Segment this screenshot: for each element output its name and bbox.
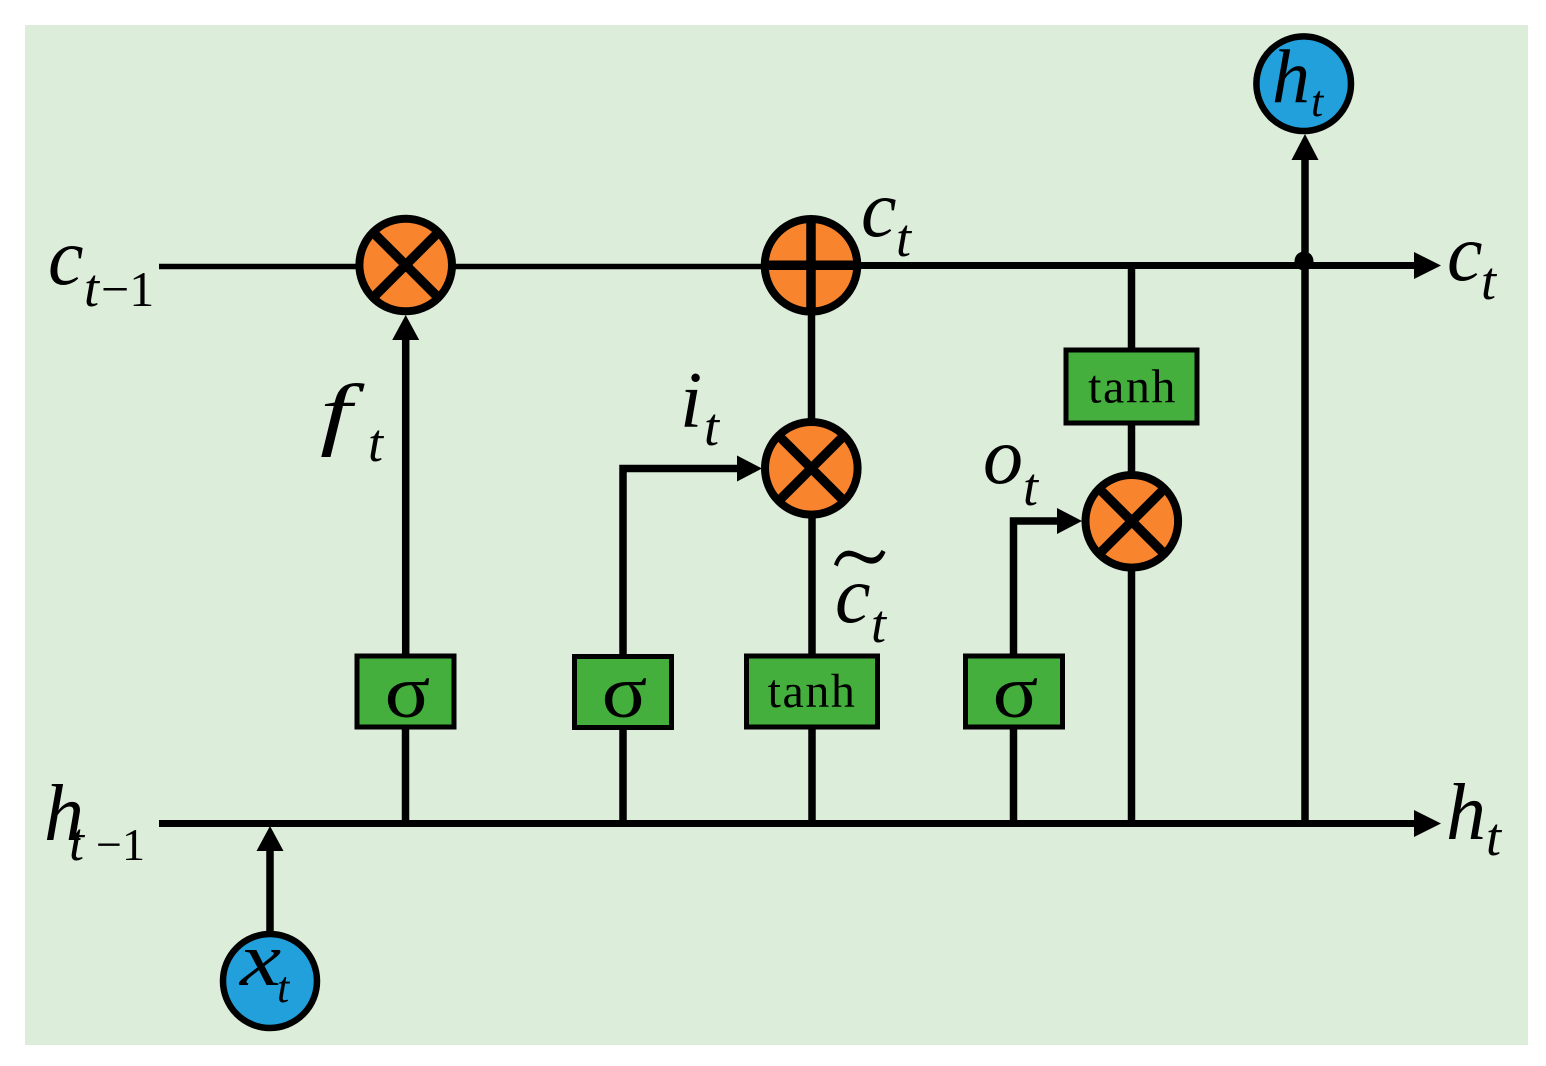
svg-text:c: c: [1447, 210, 1483, 298]
svg-text:c: c: [48, 214, 84, 302]
svg-text:h: h: [1272, 35, 1310, 119]
svg-text:σ: σ: [602, 651, 648, 733]
svg-text:−1: −1: [101, 261, 154, 317]
svg-text:tanh: tanh: [768, 665, 857, 718]
svg-text:t: t: [1023, 457, 1040, 517]
svg-text:x: x: [238, 918, 281, 1002]
svg-text:t: t: [871, 594, 888, 654]
svg-text:σ: σ: [993, 651, 1039, 733]
svg-text:c: c: [861, 166, 897, 254]
svg-text:σ: σ: [385, 651, 431, 733]
svg-text:o: o: [983, 413, 1023, 501]
svg-text:t: t: [1486, 807, 1503, 867]
svg-text:c: c: [835, 552, 871, 640]
svg-text:h: h: [1446, 769, 1486, 857]
svg-text:t: t: [277, 963, 291, 1012]
svg-text:t: t: [1311, 77, 1325, 126]
svg-text:t: t: [896, 208, 913, 268]
svg-text:t: t: [69, 812, 86, 872]
svg-text:t: t: [84, 258, 101, 318]
svg-text:tanh: tanh: [1088, 361, 1177, 414]
svg-text:t: t: [368, 413, 385, 473]
svg-text:i: i: [680, 357, 702, 445]
svg-text:−1: −1: [96, 819, 145, 870]
svg-text:t: t: [1481, 251, 1498, 311]
svg-text:t: t: [704, 397, 721, 457]
